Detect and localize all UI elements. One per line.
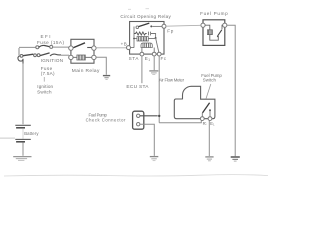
- svg-text:1: 1: [148, 58, 150, 62]
- svg-text:(7.5A): (7.5A): [41, 71, 55, 76]
- svg-text:Switch: Switch: [37, 89, 52, 94]
- svg-text:ECU STA: ECU STA: [126, 84, 149, 90]
- svg-text:Fuel Pump: Fuel Pump: [89, 112, 108, 117]
- svg-text:Fc: Fc: [203, 121, 207, 126]
- svg-text:Circuit Opening Relay: Circuit Opening Relay: [120, 14, 171, 19]
- svg-text:Fuel Pump: Fuel Pump: [200, 11, 228, 16]
- svg-text:Air Flow Meter: Air Flow Meter: [159, 78, 185, 83]
- svg-text:STA: STA: [129, 56, 140, 61]
- svg-text:EFI: EFI: [41, 34, 51, 39]
- svg-text:Switch: Switch: [203, 78, 217, 83]
- svg-text:IGNITION: IGNITION: [41, 58, 63, 63]
- svg-text:Main Relay: Main Relay: [72, 68, 100, 74]
- svg-text:E₁: E₁: [210, 121, 215, 126]
- svg-text:Fuse: Fuse: [41, 66, 53, 71]
- svg-text:Ignition: Ignition: [37, 84, 53, 89]
- svg-text:Check Connector: Check Connector: [86, 118, 126, 123]
- svg-text:Battery: Battery: [24, 131, 39, 136]
- svg-text:Fc: Fc: [161, 56, 167, 61]
- svg-text:Fuse (15A): Fuse (15A): [37, 40, 64, 45]
- svg-text:Fp: Fp: [167, 29, 173, 34]
- svg-text:+B: +B: [121, 42, 127, 47]
